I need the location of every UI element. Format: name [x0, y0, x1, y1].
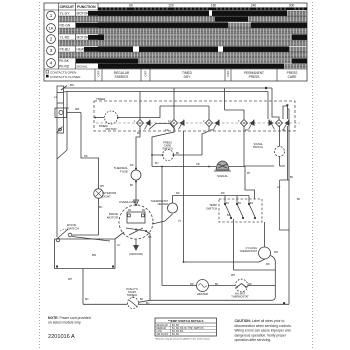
wire thermal fuse to motor — [134, 180, 139, 206]
wire heater feed vertical — [161, 167, 163, 286]
wire BK power cord to top rail — [61, 86, 68, 93]
svg-text:WH: WH — [100, 185, 104, 188]
svg-text:SWITCH: SWITCH — [162, 147, 172, 151]
svg-text:CONTACTS CLOSED: CONTACTS CLOSED — [50, 75, 81, 79]
wire cam4 inner rect — [283, 106, 289, 119]
svg-text:*TEMP SWITCH DETAILS: *TEMP SWITCH DETAILS — [168, 319, 204, 323]
svg-text:N: N — [67, 107, 69, 110]
svg-text:1: 1 — [134, 120, 136, 123]
svg-text:M5: M5 — [148, 236, 152, 239]
svg-text:MOTOR: MOTOR — [77, 12, 90, 16]
svg-text:WH: WH — [231, 274, 235, 277]
circuit 3 bar row — [98, 47, 133, 53]
wire right loop rectangle — [280, 180, 290, 230]
wire bridge cam1 to cam1A — [149, 124, 175, 130]
svg-text:DRY: DRY — [184, 75, 192, 79]
wire motor left to door circuit — [72, 232, 124, 241]
wire cycling thermostat out — [139, 256, 276, 303]
timer chart outer frame — [44, 3, 307, 81]
drive motor dashed circle — [119, 205, 153, 239]
svg-text:SWITCH: SWITCH — [127, 293, 137, 297]
svg-text:PK: PK — [282, 129, 286, 132]
svg-text:1: 1 — [50, 13, 53, 18]
wire press care row — [152, 154, 202, 156]
wire heater row — [162, 285, 275, 287]
cam switch 2 — [206, 120, 220, 130]
wire rect to push-to-start — [82, 269, 84, 305]
svg-text:OFF: OFF — [144, 70, 148, 76]
circuit row labels — [59, 12, 89, 69]
terminal block — [55, 86, 67, 133]
svg-text:RD: RD — [221, 192, 225, 195]
svg-text:on select models only.: on select models only. — [48, 321, 81, 325]
circled circuit numbers — [47, 11, 56, 67]
svg-text:M2: M2 — [142, 209, 146, 212]
svg-text:PK-BK: PK-BK — [59, 59, 70, 63]
svg-text:OR: OR — [165, 129, 169, 132]
svg-text:SWITCH: SWITCH — [253, 145, 263, 149]
ground arrow — [133, 245, 139, 251]
timer chart column dividers — [44, 3, 307, 69]
chart time scale black tick band — [98, 7, 307, 10]
wire interior light to door switch — [98, 198, 100, 235]
svg-text:CAUTION: Label all wires prio: CAUTION: Label all wires prior to — [235, 319, 285, 323]
svg-text:RD: RD — [130, 164, 134, 167]
svg-text:Wiring errors can cause improp: Wiring errors can cause improper and — [235, 329, 291, 333]
temp switch contacts — [224, 196, 256, 220]
svg-text:BK: BK — [130, 184, 134, 187]
svg-text:3: 3 — [50, 48, 53, 53]
svg-text:BN: BN — [85, 298, 89, 301]
svg-text:FUSE: FUSE — [120, 170, 128, 174]
signal buzzer — [214, 161, 231, 171]
timer box dashed — [94, 101, 295, 131]
svg-text:BK: BK — [70, 83, 74, 87]
door switch — [56, 229, 72, 242]
svg-text:TIMER: TIMER — [96, 97, 106, 101]
svg-text:GY: GY — [117, 244, 121, 247]
svg-text:120: 120 — [168, 4, 174, 8]
page border right (dotted) — [312, 2, 314, 348]
svg-text:*Switches may be closed in add: *Switches may be closed in addition to t… — [155, 338, 211, 341]
svg-text:RD: RD — [84, 155, 88, 158]
timer cam dashed actuator line — [96, 122, 300, 124]
svg-text:SWITCH: SWITCH — [206, 207, 217, 211]
svg-text:RD: RD — [176, 192, 180, 195]
svg-text:RD: RD — [266, 263, 270, 266]
svg-text:1A: 1A — [168, 120, 171, 123]
circuit 1A bar row — [98, 23, 228, 29]
svg-text:GY: GY — [277, 186, 281, 189]
wire motor bottom ground — [135, 239, 137, 245]
wire temp switch outputs down — [234, 219, 276, 270]
circuit 4b bar row — [98, 64, 284, 69]
temp switch details table — [155, 318, 217, 341]
wire top rail BK — [64, 87, 272, 89]
svg-text:CIRCUIT: CIRCUIT — [60, 5, 75, 9]
svg-text:THERMOSTAT: THERMOSTAT — [240, 249, 258, 253]
wire cam4 right side down — [287, 126, 289, 180]
svg-text:2: 2 — [203, 120, 205, 123]
svg-text:PK-BU: PK-BU — [60, 48, 71, 52]
svg-text:FABRICS: FABRICS — [115, 75, 129, 79]
svg-text:60: 60 — [129, 4, 133, 8]
cam switch 3 — [241, 120, 255, 130]
signal switch dashed circle — [275, 147, 285, 157]
temp switch dashed box — [219, 199, 262, 222]
svg-text:WH: WH — [68, 278, 72, 281]
svg-text:FUNCTION: FUNCTION — [77, 5, 96, 9]
wire cam1 feed drop — [139, 92, 141, 120]
svg-text:BK: BK — [215, 283, 219, 286]
svg-text:BU: BU — [155, 162, 159, 165]
svg-text:SIGNAL: SIGNAL — [217, 174, 228, 178]
wire cam feeds from top — [174, 88, 244, 119]
wire signal bell to right — [245, 167, 255, 200]
svg-text:2: 2 — [50, 37, 53, 42]
chart hatch row 1 black segment — [215, 17, 248, 22]
svg-text:4: 4 — [50, 61, 53, 66]
wire temp switch feed rail — [184, 195, 250, 197]
small wire color labels — [54, 96, 301, 305]
svg-text:BK: BK — [290, 176, 294, 179]
wire cam3 branch — [244, 126, 274, 166]
svg-text:MOTOR: MOTOR — [107, 216, 119, 220]
svg-text:1A: 1A — [49, 26, 54, 31]
svg-text:RD: RD — [75, 107, 80, 111]
thermostat heater — [168, 203, 178, 213]
svg-text:180: 180 — [211, 4, 217, 8]
wire L2 drop to cam 4 — [272, 88, 279, 119]
svg-text:BU: BU — [146, 302, 150, 305]
wire second top rail — [67, 92, 268, 120]
cycle band labels — [97, 70, 298, 79]
svg-text:2201016 A: 2201016 A — [48, 334, 75, 340]
wire motor centrifugal to push-to-start — [146, 231, 150, 300]
cycling thermostat — [259, 247, 271, 259]
svg-text:OFF: OFF — [226, 70, 230, 76]
push to start switch — [128, 295, 139, 309]
svg-text:BK: BK — [176, 152, 180, 155]
svg-text:SIGNAL: SIGNAL — [77, 64, 88, 68]
heater — [197, 280, 209, 292]
svg-text:YL-GY: YL-GY — [60, 12, 71, 16]
svg-text:WH: WH — [274, 251, 278, 254]
press care switch — [162, 150, 174, 161]
wire through signal switch — [280, 126, 286, 166]
svg-text:HEAT & SIGNAL: HEAT & SIGNAL — [76, 60, 94, 63]
thermal fuse — [131, 168, 141, 183]
wire thermostat heater top — [173, 196, 184, 204]
wire inner cam rail — [160, 105, 209, 107]
row divider lines — [58, 16, 307, 64]
svg-text:HEAT: HEAT — [77, 48, 86, 52]
svg-text:(GROUND): (GROUND) — [129, 252, 143, 256]
svg-text:SWITCH: SWITCH — [67, 227, 79, 231]
svg-text:RD: RD — [190, 283, 194, 286]
svg-text:OVERLOAD: OVERLOAD — [119, 200, 137, 204]
motor main winding — [127, 212, 145, 223]
wire right main bus L2 — [288, 109, 290, 304]
wire rect corner terminals — [56, 266, 114, 268]
chart hatch row 1 — [58, 16, 307, 22]
hi-limit thermostat — [235, 279, 248, 292]
svg-text:BU: BU — [99, 206, 103, 209]
page border left (dotted) — [39, 2, 41, 348]
svg-text:MOTOR: MOTOR — [105, 127, 117, 131]
svg-text:LIGHT: LIGHT — [102, 195, 111, 199]
svg-text:RD: RD — [248, 283, 252, 286]
svg-text:BU: BU — [137, 132, 141, 135]
wire bottom rail — [83, 303, 289, 305]
svg-text:HEATER: HEATER — [197, 292, 208, 296]
timer motor TM — [105, 111, 118, 124]
svg-text:OR: OR — [196, 163, 200, 166]
svg-text:3: 3 — [238, 120, 240, 123]
cam switch 4 — [269, 120, 290, 130]
wire timer inner feed — [95, 117, 104, 119]
wire door switch to interior light junction — [72, 234, 99, 236]
svg-text:300: 300 — [289, 4, 295, 8]
interior light — [94, 189, 104, 199]
svg-text:M1: M1 — [128, 209, 132, 212]
wire timer motor output — [118, 106, 161, 118]
circuit 1 bar row — [98, 11, 209, 17]
motor centrifugal switch — [126, 228, 147, 235]
svg-text:NOTE: Power cord provided: NOTE: Power cord provided — [48, 316, 91, 320]
wire bell row — [152, 166, 245, 168]
svg-text:240: 240 — [251, 4, 257, 8]
NOTE block — [48, 316, 91, 340]
svg-text:YL-RD: YL-RD — [60, 36, 71, 40]
svg-text:RD-GN: RD-GN — [60, 24, 71, 28]
svg-text:BN: BN — [92, 253, 96, 257]
wire motor right to thermostat heater — [152, 214, 173, 224]
cam switch 1 — [137, 120, 151, 130]
contacts legend — [46, 70, 81, 78]
wire neutral drop left — [57, 92, 67, 159]
chart hatch row 4 — [58, 52, 307, 58]
cam switch 1A — [171, 120, 185, 130]
svg-text:MOTOR: MOTOR — [77, 36, 90, 40]
svg-text:B1, B4: B1, B4 — [172, 334, 180, 336]
schematic text labels — [67, 83, 264, 299]
svg-text:operation after servicing.: operation after servicing. — [235, 338, 272, 342]
chart hatch row 3 — [58, 40, 307, 46]
svg-text:disconnection when servicing c: disconnection when servicing controls. — [235, 324, 292, 328]
svg-text:CARE: CARE — [288, 75, 297, 79]
chart hatch row 2 — [58, 28, 307, 34]
junction square bottom right — [283, 302, 285, 304]
function cell black fills — [88, 11, 98, 16]
CAUTION block — [235, 319, 292, 342]
wire long vertical from timer to cycling thermostat — [184, 131, 260, 262]
wire cam1A to press care switch — [152, 127, 174, 167]
svg-text:B2: B2 — [238, 202, 242, 205]
svg-text:PK: PK — [247, 172, 251, 175]
svg-text:PRESS: PRESS — [249, 75, 260, 79]
wire left L1 rail — [56, 133, 58, 237]
svg-text:CONTACTS OPEN: CONTACTS OPEN — [50, 70, 76, 74]
svg-text:BK: BK — [297, 198, 301, 201]
svg-text:B3: B3 — [250, 202, 254, 205]
svg-text:PK-RD: PK-RD — [59, 64, 70, 68]
svg-text:HEATER: HEATER — [158, 202, 168, 206]
wire cam1 to thermal fuse — [136, 126, 140, 170]
svg-text:B1: B1 — [226, 202, 230, 205]
svg-text:TIMER MOTOR: TIMER MOTOR — [77, 24, 95, 27]
svg-text:THERMOSTAT: THERMOSTAT — [231, 295, 249, 299]
svg-text:VT: VT — [178, 220, 182, 223]
circuit 2 bar row — [98, 35, 104, 41]
svg-text:OFF: OFF — [97, 70, 101, 76]
svg-text:AIR FLUFF: AIR FLUFF — [157, 333, 169, 336]
heater element mark — [199, 284, 207, 288]
svg-text:BK: BK — [140, 298, 144, 301]
chart header CIRCUIT FUNCTION — [60, 5, 96, 9]
svg-text:dangerous operation. Verify: dangerous operation. Verify proper — [235, 333, 287, 337]
cycle band dividers — [95, 69, 277, 81]
wire cam2 to press care switch — [202, 127, 209, 156]
chart time scale numbers — [129, 4, 294, 8]
svg-text:WH: WH — [210, 129, 214, 132]
svg-text:PK: PK — [245, 129, 249, 132]
wire RD terminal to interior light — [67, 113, 99, 190]
wire big left rect — [55, 239, 116, 269]
junction square on rail — [265, 87, 267, 89]
circuit 4a bar row — [98, 59, 138, 64]
